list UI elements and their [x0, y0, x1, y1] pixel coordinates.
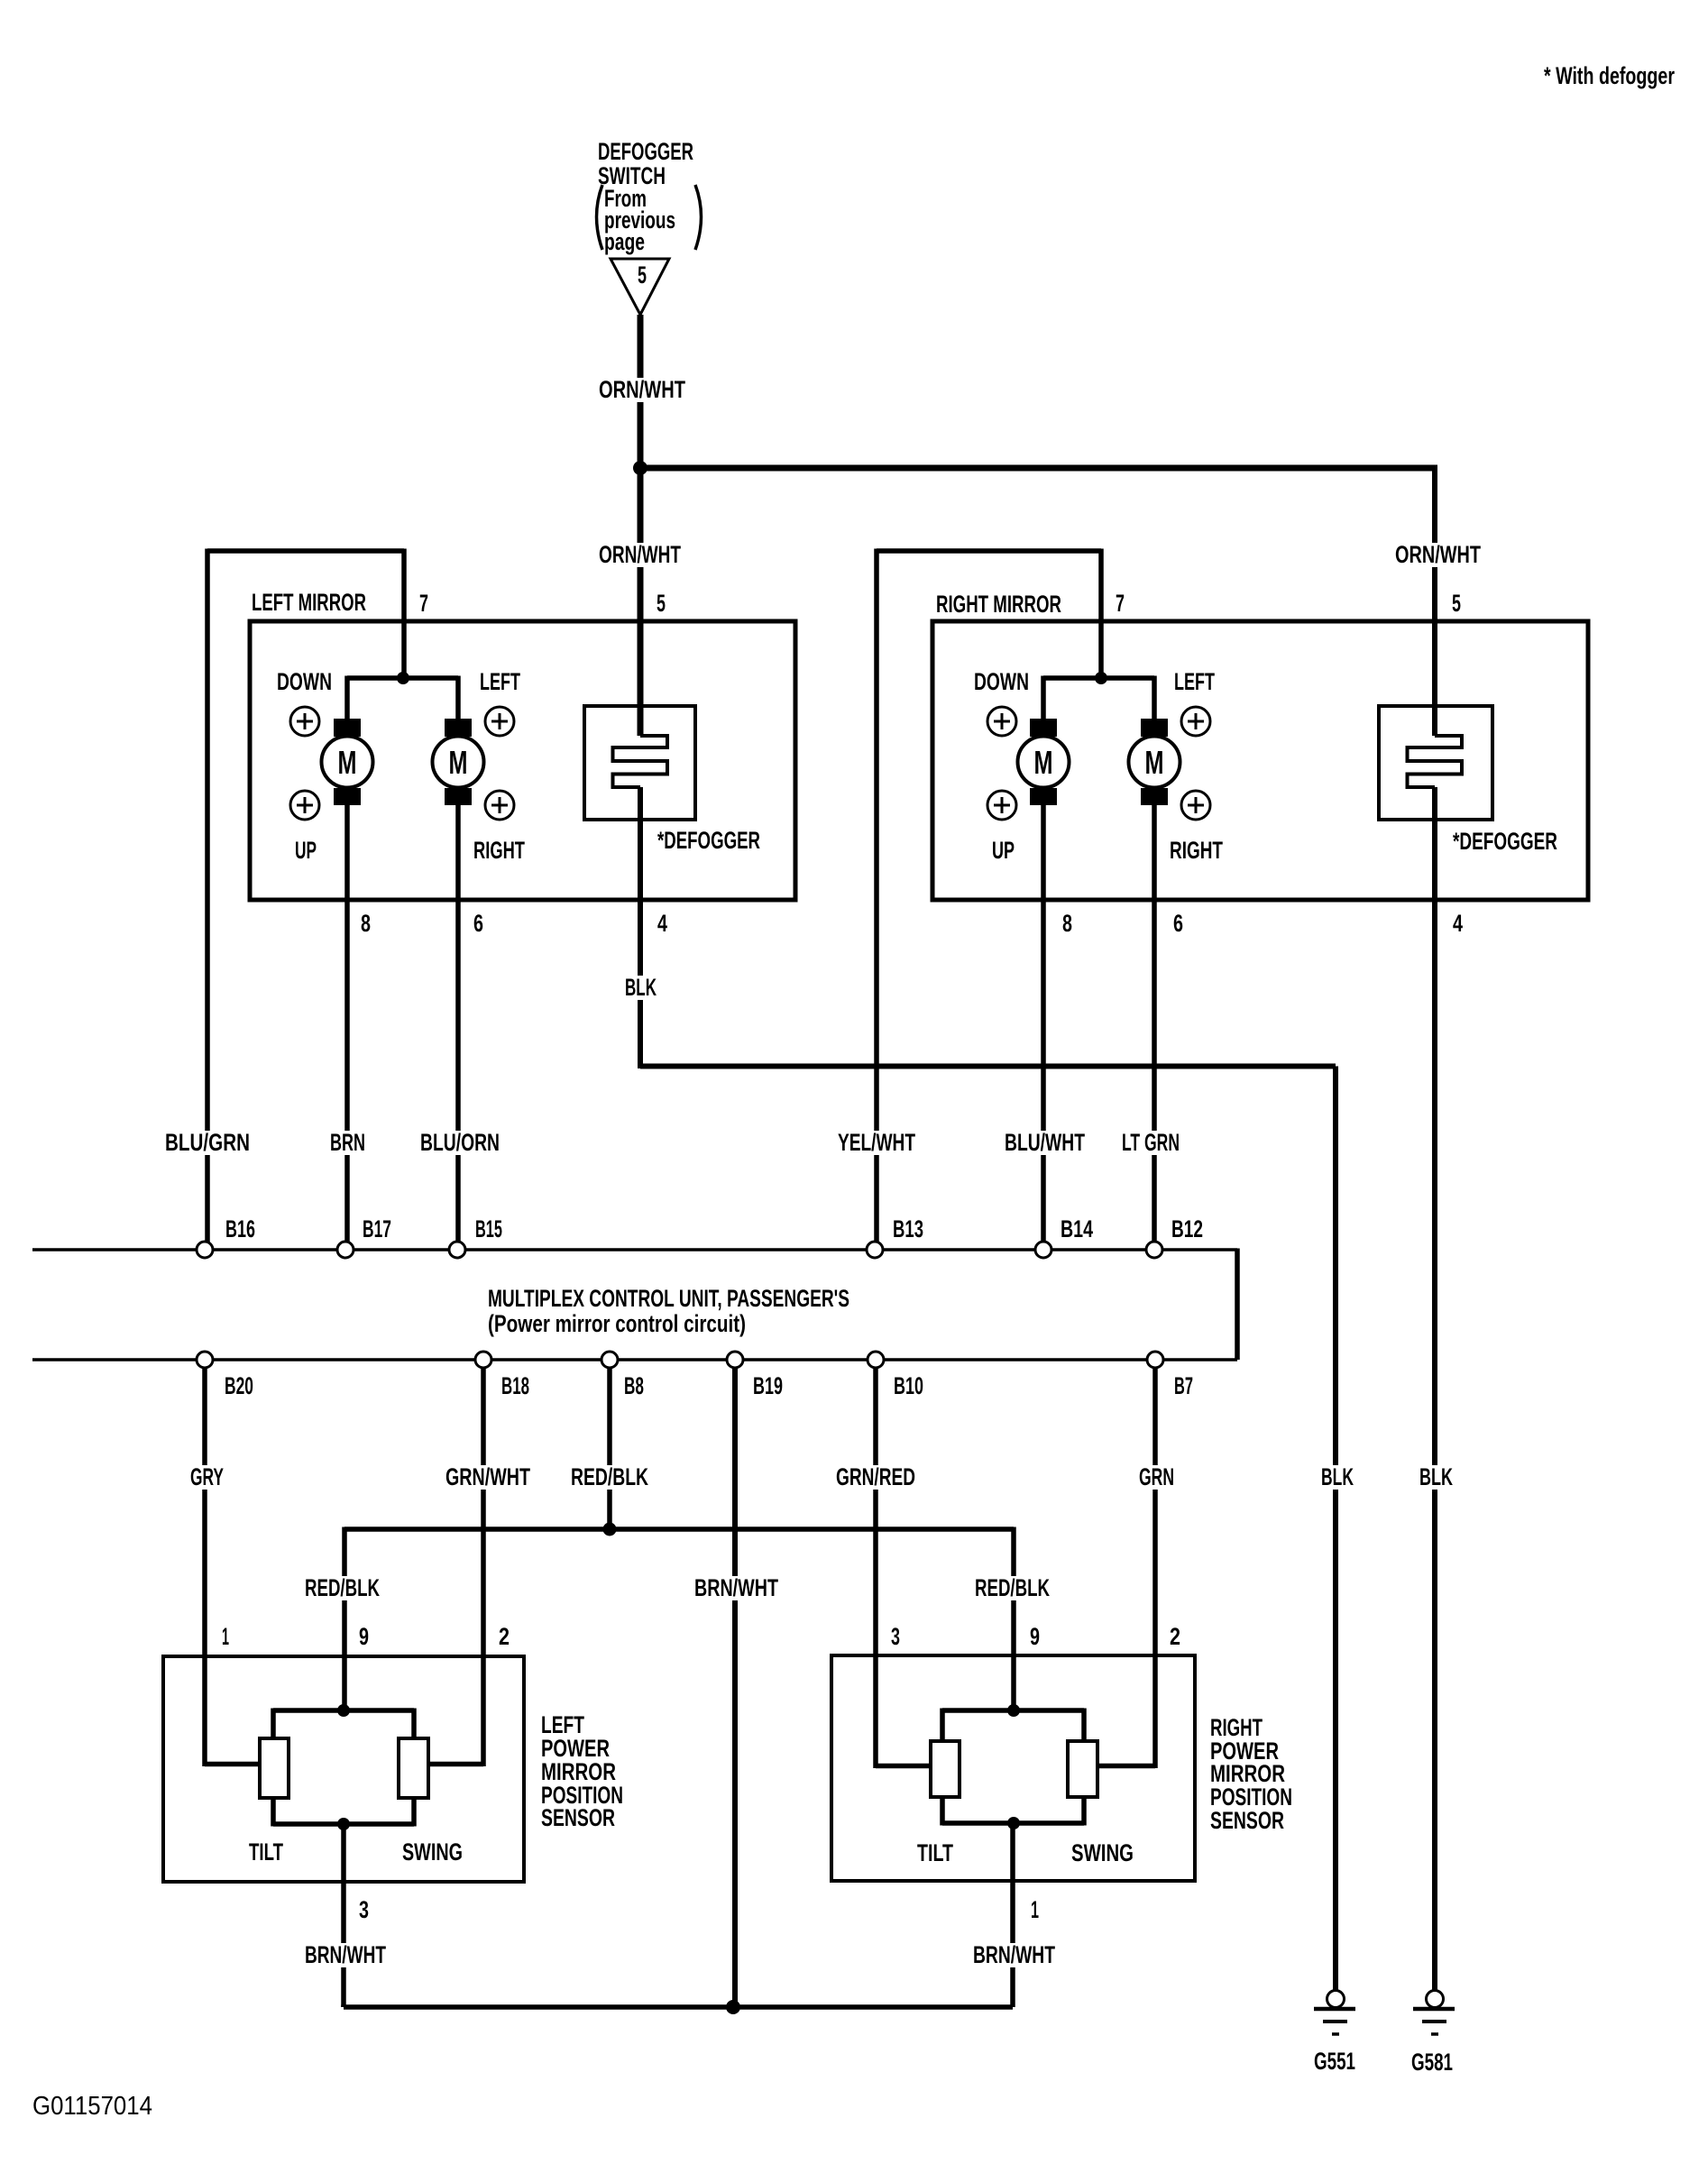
svg-text:BLU/WHT: BLU/WHT — [1005, 1129, 1085, 1156]
svg-text:9: 9 — [359, 1623, 369, 1650]
svg-text:LT GRN: LT GRN — [1122, 1129, 1180, 1156]
svg-text:6: 6 — [473, 910, 483, 937]
svg-text:* With defogger: * With defogger — [1544, 62, 1675, 89]
svg-text:4: 4 — [657, 910, 667, 937]
svg-text:SENSOR: SENSOR — [541, 1804, 615, 1831]
svg-text:B17: B17 — [363, 1215, 391, 1242]
svg-text:5: 5 — [1452, 590, 1461, 617]
svg-text:YEL/WHT: YEL/WHT — [838, 1129, 915, 1156]
svg-text:GRN/WHT: GRN/WHT — [445, 1463, 530, 1490]
svg-text:B16: B16 — [225, 1215, 255, 1242]
svg-text:3: 3 — [891, 1623, 900, 1650]
svg-text:(Power mirror control circuit): (Power mirror control circuit) — [488, 1310, 746, 1337]
svg-text:7: 7 — [1116, 590, 1125, 617]
svg-text:LEFT: LEFT — [1174, 668, 1215, 695]
svg-text:BRN/WHT: BRN/WHT — [694, 1574, 778, 1601]
svg-text:B14: B14 — [1061, 1215, 1093, 1242]
svg-text:B7: B7 — [1174, 1372, 1193, 1399]
svg-text:DOWN: DOWN — [277, 668, 332, 695]
svg-text:2: 2 — [1170, 1623, 1180, 1650]
svg-text:RIGHT: RIGHT — [473, 837, 525, 864]
svg-text:5: 5 — [657, 590, 666, 617]
svg-text:B12: B12 — [1171, 1215, 1203, 1242]
svg-text:8: 8 — [361, 910, 371, 937]
svg-text:B10: B10 — [894, 1372, 923, 1399]
svg-text:M: M — [1145, 744, 1164, 781]
svg-text:TILT: TILT — [917, 1839, 953, 1866]
svg-text:SWING: SWING — [402, 1838, 463, 1866]
svg-text:UP: UP — [295, 837, 317, 864]
svg-text:RED/BLK: RED/BLK — [305, 1574, 380, 1601]
svg-text:8: 8 — [1062, 910, 1072, 937]
svg-text:MULTIPLEX CONTROL UNIT, PASSEN: MULTIPLEX CONTROL UNIT, PASSENGER'S — [488, 1285, 849, 1312]
svg-text:M: M — [1034, 744, 1053, 781]
svg-text:BLK: BLK — [1419, 1463, 1453, 1490]
svg-text:3: 3 — [359, 1896, 369, 1923]
svg-text:9: 9 — [1030, 1623, 1040, 1650]
svg-text:B8: B8 — [624, 1372, 644, 1399]
svg-text:RED/BLK: RED/BLK — [571, 1463, 648, 1490]
svg-text:BRN/WHT: BRN/WHT — [305, 1941, 386, 1968]
svg-text:BLK: BLK — [1321, 1463, 1354, 1490]
svg-text:G01157014: G01157014 — [32, 2092, 152, 2121]
svg-text:*DEFOGGER: *DEFOGGER — [1453, 828, 1557, 855]
svg-text:UP: UP — [992, 837, 1015, 864]
svg-text:*DEFOGGER: *DEFOGGER — [657, 827, 760, 854]
svg-text:page: page — [604, 228, 645, 255]
svg-text:TILT: TILT — [249, 1838, 283, 1866]
svg-text:SENSOR: SENSOR — [1210, 1807, 1284, 1834]
svg-text:G581: G581 — [1411, 2049, 1453, 2076]
svg-text:ORN/WHT: ORN/WHT — [599, 376, 685, 403]
svg-text:GRN/RED: GRN/RED — [836, 1463, 915, 1490]
svg-text:7: 7 — [419, 590, 428, 617]
svg-text:5: 5 — [638, 261, 647, 289]
svg-text:BLU/GRN: BLU/GRN — [165, 1129, 250, 1156]
svg-text:B15: B15 — [475, 1215, 502, 1242]
svg-text:RIGHT: RIGHT — [1170, 837, 1223, 864]
svg-text:2: 2 — [499, 1623, 510, 1650]
svg-text:1: 1 — [1031, 1896, 1039, 1923]
svg-text:SWING: SWING — [1071, 1839, 1134, 1866]
svg-text:BRN/WHT: BRN/WHT — [973, 1941, 1055, 1968]
svg-text:LEFT MIRROR: LEFT MIRROR — [252, 589, 366, 616]
svg-text:6: 6 — [1173, 910, 1183, 937]
svg-text:ORN/WHT: ORN/WHT — [1395, 541, 1481, 568]
svg-text:RED/BLK: RED/BLK — [975, 1574, 1050, 1601]
svg-text:B13: B13 — [893, 1215, 923, 1242]
svg-text:BRN: BRN — [330, 1129, 365, 1156]
svg-text:M: M — [338, 744, 357, 781]
svg-text:LEFT: LEFT — [480, 668, 520, 695]
svg-text:B20: B20 — [225, 1372, 253, 1399]
svg-text:1: 1 — [222, 1623, 229, 1650]
svg-text:B18: B18 — [501, 1372, 529, 1399]
svg-text:GRN: GRN — [1139, 1463, 1174, 1490]
svg-text:BLK: BLK — [625, 974, 657, 1001]
svg-text:RIGHT MIRROR: RIGHT MIRROR — [936, 591, 1061, 618]
svg-text:G551: G551 — [1314, 2048, 1355, 2075]
svg-text:DOWN: DOWN — [974, 668, 1029, 695]
svg-text:B19: B19 — [753, 1372, 783, 1399]
svg-text:GRY: GRY — [190, 1463, 224, 1490]
svg-text:ORN/WHT: ORN/WHT — [599, 541, 681, 568]
svg-text:4: 4 — [1453, 910, 1463, 937]
svg-text:BLU/ORN: BLU/ORN — [420, 1129, 500, 1156]
svg-text:DEFOGGER: DEFOGGER — [598, 138, 693, 165]
svg-text:M: M — [449, 744, 468, 781]
